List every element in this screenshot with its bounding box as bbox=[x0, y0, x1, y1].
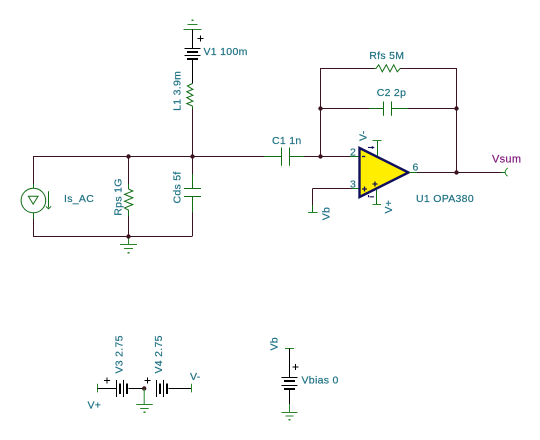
wire feedback top right bbox=[401, 68, 458, 70]
wire left vertical (Is_AC top) bbox=[33, 156, 35, 184]
svg-text:Is_AC: Is_AC bbox=[64, 193, 94, 205]
wire Vb terminal to Vbias bbox=[289, 349, 291, 378]
node junction dot (output) bbox=[454, 170, 458, 174]
svg-text:Vbias 0: Vbias 0 bbox=[302, 374, 339, 386]
node junction dot (rail / L1-Cds) bbox=[190, 154, 194, 158]
wire Vbias to ground bbox=[289, 389, 291, 404]
svg-text:Cds 5f: Cds 5f bbox=[172, 171, 184, 203]
node junction dot (bottom rail / ground) bbox=[126, 234, 130, 238]
inductor L1 bbox=[187, 84, 193, 110]
svg-text:3: 3 bbox=[350, 179, 356, 191]
battery V1 bbox=[185, 36, 204, 60]
node junction dot (C2 left) bbox=[318, 106, 322, 110]
svg-text:6: 6 bbox=[413, 162, 419, 174]
wire V+ terminal to V3 bbox=[98, 388, 117, 390]
terminal Vb (below pin3) bbox=[308, 205, 318, 213]
wire V3 to junction bbox=[129, 388, 145, 390]
wire output green lead bbox=[409, 172, 417, 174]
capacitor C1 bbox=[264, 148, 304, 166]
svg-text:Rfs 5M: Rfs 5M bbox=[369, 50, 404, 62]
wire V1 to L1 bbox=[192, 59, 194, 84]
svg-text:V4 2.75: V4 2.75 bbox=[153, 335, 165, 373]
svg-text:U1 OPA380: U1 OPA380 bbox=[416, 193, 474, 205]
svg-text:V+: V+ bbox=[383, 200, 395, 214]
ground (Vbias) bbox=[282, 404, 298, 421]
op-amp U1 bbox=[360, 146, 409, 197]
svg-text:V1 100m: V1 100m bbox=[204, 46, 248, 58]
svg-text:V-: V- bbox=[358, 130, 370, 141]
node junction dot (supply mid) bbox=[142, 386, 146, 390]
wire top rail left bbox=[33, 156, 350, 158]
wire L1 to node bbox=[192, 109, 194, 156]
svg-text:L1 3.9m: L1 3.9m bbox=[172, 71, 184, 111]
wire feedback left vertical bbox=[320, 68, 322, 157]
resistor Rps bbox=[125, 156, 133, 236]
svg-text:V3 2.75: V3 2.75 bbox=[114, 335, 126, 373]
wire bottom rail bbox=[33, 213, 193, 237]
terminal V- (bottom left) bbox=[191, 384, 193, 393]
battery V3 bbox=[104, 378, 127, 398]
svg-text:C1 1n: C1 1n bbox=[272, 135, 302, 147]
wire pin3 horizontal bbox=[313, 189, 353, 206]
power pin V- (top) bbox=[373, 140, 382, 156]
power pin V+ (bottom) bbox=[373, 190, 382, 205]
wire pin3 green lead bbox=[352, 188, 360, 190]
battery Vbias bbox=[282, 364, 299, 389]
wire V4 to V- terminal bbox=[169, 388, 192, 390]
battery V4 bbox=[145, 378, 168, 398]
wire left vertical (Is_AC bottom) bbox=[33, 219, 35, 236]
ground (supply mid) bbox=[136, 389, 153, 414]
wire C2 right bbox=[408, 108, 457, 110]
wire pin2 green lead bbox=[350, 156, 360, 158]
resistor Rfs bbox=[375, 65, 401, 72]
wire V1 ground lead bbox=[192, 30, 194, 49]
wire inverting node to op-amp bbox=[320, 156, 350, 158]
terminal Vb (Vbias top) bbox=[285, 348, 294, 350]
node junction dot (inverting input) bbox=[318, 154, 322, 158]
wire C2 left bbox=[320, 108, 369, 110]
svg-text:Vb: Vb bbox=[269, 337, 281, 350]
current source Is_AC bbox=[21, 184, 51, 219]
terminal V+ (bottom left) bbox=[97, 384, 99, 393]
svg-text:C2 2p: C2 2p bbox=[377, 87, 407, 99]
ground (bottom rail) bbox=[120, 236, 137, 254]
svg-text:Vb: Vb bbox=[321, 207, 333, 220]
svg-text:V+: V+ bbox=[88, 400, 102, 412]
capacitor Cds bbox=[184, 156, 201, 213]
svg-text:V-: V- bbox=[190, 371, 201, 383]
wire output bbox=[417, 172, 501, 174]
svg-text:Rps 1G: Rps 1G bbox=[113, 178, 125, 215]
terminal Vsum output bbox=[501, 168, 508, 176]
capacitor C2 bbox=[369, 102, 408, 116]
node junction dot (C2 right) bbox=[454, 106, 458, 110]
node junction dot (rail / Rps) bbox=[126, 154, 130, 158]
svg-text:Vsum: Vsum bbox=[492, 154, 521, 166]
wire feedback right vertical bbox=[456, 68, 458, 172]
wire feedback top left bbox=[320, 68, 375, 70]
svg-text:2: 2 bbox=[350, 147, 356, 159]
ground (top, above V1) bbox=[184, 20, 202, 30]
